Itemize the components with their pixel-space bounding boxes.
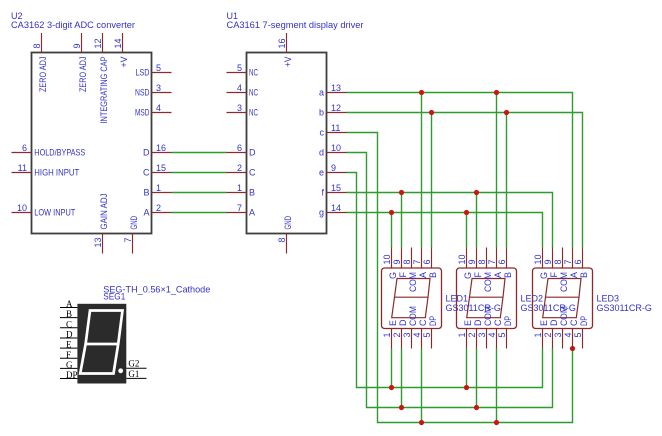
U2 pin 9 ZERO ADJ (top) [81, 33, 83, 53]
junction at 466.5,212.5 [464, 210, 469, 215]
LED2 pin 10 G (top) [466, 248, 468, 269]
svg-text:GND: GND [283, 216, 293, 230]
LED1 pin 4 C (bottom) [421, 329, 423, 349]
svg-text:F: F [549, 272, 559, 278]
junction at 421.5,422.5 [419, 420, 424, 425]
LED2 pin 7 A (top) [496, 248, 498, 269]
wire net e branch to LED2 pin1 [466, 349, 468, 388]
svg-text:9: 9 [467, 259, 477, 264]
U1 pin 6 D (left) [227, 152, 247, 154]
LED2 pin 3 COM (bottom) [486, 329, 488, 349]
svg-text:NSD: NSD [135, 88, 150, 98]
LED3 digit-8 graphic [543, 279, 581, 318]
svg-text:2: 2 [156, 203, 161, 213]
wire net b: U1-12 to LED3 pin6 [347, 113, 583, 248]
svg-text:12: 12 [331, 103, 341, 113]
7-segment display LED2 GS3011CR-G body [457, 268, 517, 329]
wire net g branch to LED1 pin10 [391, 213, 393, 248]
svg-text:13: 13 [93, 238, 103, 248]
svg-text:CA3161 7-segment display drive: CA3161 7-segment display driver [227, 20, 364, 30]
U2 pin 7 GND (bottom) [132, 234, 134, 254]
SEG1 pin E (left) [60, 347, 77, 349]
svg-text:13: 13 [331, 83, 341, 93]
svg-text:D: D [143, 148, 150, 158]
LED3 pin 3 COM (bottom) [562, 329, 564, 349]
svg-text:8: 8 [402, 259, 412, 264]
U1 pin 10 d (right) [327, 152, 347, 154]
LED1 pin 6 B (top) [431, 248, 433, 269]
svg-text:C: C [569, 319, 579, 326]
svg-text:A: A [418, 272, 428, 278]
svg-text:b: b [319, 108, 324, 118]
LED3 pin 5 DP (bottom) [582, 329, 584, 349]
LED2 pin 4 C (bottom) [496, 329, 498, 349]
svg-text:NC: NC [249, 108, 258, 118]
wire net a: U1-13 to LED3 pin7 [347, 93, 573, 248]
svg-text:1: 1 [382, 333, 392, 338]
U1 pin 2 C (left) [227, 172, 247, 174]
junction at 431.5,112.5 [429, 110, 434, 115]
svg-text:+V: +V [283, 57, 293, 68]
svg-text:B: B [579, 272, 589, 278]
U1 pin 3 NC (left) [227, 112, 247, 114]
U1 pin 12 b (right) [327, 112, 347, 114]
wire net e: U1-9 via bottom bus to LED3 pin1 [347, 173, 543, 388]
U1 pin 16 +V (top) [286, 33, 288, 53]
7-segment display LED1 GS3011CR-G body [382, 268, 442, 329]
junction at 401.5,192.5 [399, 190, 404, 195]
svg-text:3: 3 [156, 83, 161, 93]
svg-text:8: 8 [553, 259, 563, 264]
svg-text:3: 3 [477, 333, 487, 338]
wire net b branch to LED2 pin6 [506, 113, 508, 248]
svg-text:DP: DP [428, 316, 438, 326]
wire U2-D to U1-D [172, 152, 227, 154]
wire U2-C to U1-C [172, 172, 227, 174]
svg-text:8: 8 [32, 43, 42, 48]
svg-text:DP: DP [579, 316, 589, 326]
LED1 pin 2 D (bottom) [401, 329, 403, 349]
junction at 476.5,192.5 [474, 190, 479, 195]
junction at 391.5,212.5 [389, 210, 394, 215]
U2 pin 8 ZERO ADJ (top) [41, 33, 43, 53]
U2 pin 5 LSD (right) [152, 72, 172, 74]
svg-text:B: B [428, 272, 438, 278]
SEG1 pin DP (left) [60, 378, 77, 380]
svg-text:10: 10 [382, 254, 392, 264]
IC U2 CA3162 body [32, 53, 152, 234]
svg-text:C: C [493, 319, 503, 326]
svg-text:G: G [539, 272, 549, 279]
svg-text:11: 11 [18, 163, 27, 173]
svg-text:D: D [473, 319, 483, 326]
svg-text:D: D [398, 319, 408, 326]
svg-text:NC: NC [249, 88, 258, 98]
svg-text:DP: DP [503, 316, 513, 326]
svg-text:GS3011CR-G: GS3011CR-G [597, 303, 652, 313]
svg-text:G1: G1 [128, 369, 139, 379]
svg-text:e: e [319, 168, 324, 178]
LED1 pin 7 A (top) [421, 248, 423, 269]
SEG1 decimal point [118, 368, 123, 373]
U1 pin 1 B (left) [227, 192, 247, 194]
svg-text:MSD: MSD [135, 108, 150, 118]
svg-text:16: 16 [277, 38, 287, 48]
wire net d: U1-10 via bottom bus to LED3 pin2 [347, 153, 553, 408]
svg-text:1: 1 [156, 183, 161, 193]
U2 pin 4 MSD (right) [152, 112, 172, 114]
junction at 466.5,387.5 [464, 385, 469, 390]
LED1 pin 3 COM (bottom) [411, 329, 413, 349]
LED3 pin 2 D (bottom) [552, 329, 554, 349]
svg-text:1: 1 [533, 333, 543, 338]
svg-text:3: 3 [402, 333, 412, 338]
junction at 496.5,92.5 [494, 90, 499, 95]
svg-text:2: 2 [392, 333, 402, 338]
U2 pin 14 +V (top) [122, 33, 124, 53]
svg-text:8: 8 [477, 259, 487, 264]
svg-text:6: 6 [22, 143, 27, 153]
SEG1 pin G (left) [60, 367, 77, 369]
svg-text:E: E [463, 320, 473, 326]
svg-text:SEG1: SEG1 [103, 292, 125, 303]
svg-text:a: a [319, 88, 324, 98]
U2 pin 11 HIGH INPUT (left) [12, 172, 32, 174]
svg-text:10: 10 [533, 254, 543, 264]
junction at 476.5,407.5 [474, 405, 479, 410]
svg-text:LSD: LSD [136, 68, 150, 78]
svg-text:COM: COM [559, 306, 569, 326]
svg-text:C: C [66, 319, 72, 329]
U1 pin 15 f (right) [327, 192, 347, 194]
U1 pin 4 NC (left) [227, 92, 247, 94]
svg-text:E: E [539, 320, 549, 326]
svg-text:6: 6 [422, 259, 432, 264]
svg-text:10: 10 [457, 254, 467, 264]
wire net e branch to LED1 pin1 [391, 349, 393, 388]
svg-text:COM: COM [408, 306, 418, 326]
wire net g: U1-14 to LED3 pin10 [347, 213, 543, 248]
junction at 506.5,112.5 [504, 110, 509, 115]
junction at 391.5,387.5 [389, 385, 394, 390]
svg-text:DP: DP [66, 370, 78, 380]
SEG1 pin F (left) [60, 357, 77, 359]
U1 pin 5 NC (left) [227, 72, 247, 74]
U1 pin 8 GND (bottom) [286, 234, 288, 254]
svg-text:14: 14 [113, 38, 123, 48]
svg-text:D: D [549, 319, 559, 326]
SEG1 digit-8 graphic [80, 311, 122, 374]
svg-text:9: 9 [392, 259, 402, 264]
U1 pin 14 g (right) [327, 212, 347, 214]
wire U2-A to U1-A [172, 212, 227, 214]
svg-text:E: E [66, 340, 72, 350]
svg-text:B: B [249, 188, 255, 198]
LED2 pin 1 E (bottom) [466, 329, 468, 349]
SEG1 pin G1 (right) [126, 377, 146, 379]
SEG1 pin A (left) [60, 307, 77, 309]
svg-text:NC: NC [249, 68, 258, 78]
svg-text:15: 15 [156, 163, 166, 173]
svg-text:A: A [493, 272, 503, 278]
svg-text:E: E [388, 320, 398, 326]
svg-text:COM: COM [483, 306, 493, 326]
LED2 pin 6 B (top) [506, 248, 508, 269]
svg-text:5: 5 [156, 63, 161, 73]
svg-text:5: 5 [237, 63, 242, 73]
svg-text:7: 7 [487, 259, 497, 264]
svg-text:GND: GND [129, 216, 139, 230]
SEG1 pin C (left) [60, 327, 77, 329]
svg-text:g: g [319, 208, 324, 218]
svg-text:B: B [143, 188, 149, 198]
svg-text:4: 4 [237, 83, 242, 93]
LED2 pin 8 COM (top) [486, 248, 488, 269]
U1 pin 11 c (right) [327, 132, 347, 134]
svg-text:A: A [66, 299, 73, 309]
svg-text:C: C [418, 319, 428, 326]
U2 pin 3 NSD (right) [152, 92, 172, 94]
svg-text:4: 4 [156, 103, 161, 113]
LED3 pin 9 F (top) [552, 248, 554, 269]
junction at 401.5,407.5 [399, 405, 404, 410]
svg-text:16: 16 [156, 143, 166, 153]
wire U2-B to U1-B [172, 192, 227, 194]
U1 pin 9 e (right) [327, 172, 347, 174]
U2 pin 2 A (right) [152, 212, 172, 214]
svg-text:14: 14 [331, 203, 341, 213]
LED1 pin 5 DP (bottom) [431, 329, 433, 349]
svg-text:2: 2 [237, 163, 242, 173]
LED1 pin 8 COM (top) [411, 248, 413, 269]
svg-text:3: 3 [553, 333, 563, 338]
LED2 pin 9 F (top) [476, 248, 478, 269]
svg-text:7: 7 [237, 203, 242, 213]
svg-text:G: G [388, 272, 398, 279]
wire net a branch to LED2 pin7 [496, 93, 498, 248]
U2 pin 6 HOLD/BYPASS (left) [12, 152, 32, 154]
LED3 pin 6 B (top) [582, 248, 584, 269]
svg-text:9: 9 [543, 259, 553, 264]
LED1 pin 1 E (bottom) [391, 329, 393, 349]
wire net f branch to LED1 pin9 [401, 193, 403, 248]
svg-text:6: 6 [497, 259, 507, 264]
svg-text:A: A [143, 208, 149, 218]
SEG1 pin B (left) [60, 317, 77, 319]
U1 pin 7 A (left) [227, 212, 247, 214]
svg-text:9: 9 [331, 163, 336, 173]
svg-text:2: 2 [543, 333, 553, 338]
svg-text:F: F [398, 272, 408, 278]
svg-text:INTEGRATING CAP: INTEGRATING CAP [99, 57, 109, 124]
junction at 421.5,92.5 [419, 90, 424, 95]
svg-text:1: 1 [237, 183, 242, 193]
svg-text:11: 11 [331, 123, 340, 133]
svg-text:10: 10 [17, 203, 27, 213]
svg-text:C: C [143, 168, 150, 178]
U2 pin 13 GAIN ADJ (bottom) [102, 234, 104, 254]
LED3 pin 8 COM (top) [562, 248, 564, 269]
svg-text:A: A [569, 272, 579, 278]
svg-text:10: 10 [331, 143, 341, 153]
wire net c branch to LED2 pin4 [496, 349, 498, 423]
svg-text:CA3162 3-digit ADC converter: CA3162 3-digit ADC converter [11, 20, 135, 30]
svg-text:G: G [66, 360, 73, 370]
U2 pin 10 LOW INPUT (left) [12, 212, 32, 214]
svg-text:B: B [503, 272, 513, 278]
svg-text:8: 8 [277, 238, 287, 243]
svg-text:1: 1 [457, 333, 467, 338]
svg-text:5: 5 [497, 333, 507, 338]
wire net b branch to LED1 pin6 [431, 113, 433, 248]
svg-text:ZERO ADJ: ZERO ADJ [78, 57, 88, 93]
junction at 572.5,348.5 [570, 346, 575, 351]
svg-text:d: d [319, 148, 324, 158]
svg-text:6: 6 [237, 143, 242, 153]
svg-text:2: 2 [467, 333, 477, 338]
wire net g branch to LED2 pin10 [466, 213, 468, 248]
svg-text:G: G [463, 272, 473, 279]
svg-text:HOLD/BYPASS: HOLD/BYPASS [34, 148, 85, 158]
svg-text:9: 9 [72, 43, 82, 48]
svg-text:7: 7 [563, 259, 573, 264]
SEG1 pin D (left) [60, 337, 77, 339]
IC U1 CA3161 body [247, 53, 327, 234]
SEG1 pin G2 (right) [126, 367, 146, 369]
wire net c: U1-11 via bottom bus to LED3 pin4 [347, 133, 573, 423]
svg-text:COM: COM [559, 272, 569, 292]
wire net f: U1-15 to LED3 pin9 [347, 193, 553, 248]
svg-text:c: c [320, 128, 325, 138]
LED1 pin 9 F (top) [401, 248, 403, 269]
svg-text:3: 3 [237, 103, 242, 113]
LED1 digit-8 graphic [392, 279, 430, 318]
svg-text:4: 4 [412, 333, 422, 338]
U2 pin 15 C (right) [152, 172, 172, 174]
svg-text:15: 15 [331, 183, 341, 193]
svg-text:LOW INPUT: LOW INPUT [34, 208, 75, 218]
svg-text:5: 5 [573, 333, 583, 338]
svg-text:5: 5 [422, 333, 432, 338]
SEG1 display body [77, 304, 126, 384]
wire net c branch to LED1 pin4 [421, 349, 423, 423]
svg-text:4: 4 [487, 333, 497, 338]
U2 pin 1 B (right) [152, 192, 172, 194]
svg-text:F: F [473, 272, 483, 278]
svg-text:A: A [249, 208, 255, 218]
svg-text:COM: COM [483, 272, 493, 292]
svg-text:GAIN ADJ: GAIN ADJ [99, 194, 109, 230]
svg-text:D: D [249, 148, 256, 158]
LED3 pin 1 E (bottom) [542, 329, 544, 349]
LED2 pin 5 DP (bottom) [506, 329, 508, 349]
U2 pin 12 INTEGRATING CAP (top) [102, 33, 104, 53]
svg-text:4: 4 [563, 333, 573, 338]
junction at 496.5,422.5 [494, 420, 499, 425]
svg-text:ZERO ADJ: ZERO ADJ [38, 57, 48, 92]
LED2 digit-8 graphic [467, 279, 505, 318]
svg-text:F: F [66, 350, 71, 360]
svg-text:C: C [249, 168, 256, 178]
svg-text:D: D [66, 329, 73, 339]
wire net d branch to LED1 pin2 [401, 349, 403, 408]
wire net f branch to LED2 pin9 [476, 193, 478, 248]
svg-text:+V: +V [119, 57, 129, 68]
LED3 pin 7 A (top) [572, 248, 574, 269]
wire net a branch to LED1 pin7 [421, 93, 423, 248]
7-segment display LED3 GS3011CR-G body [533, 268, 593, 329]
LED3 pin 10 G (top) [542, 248, 544, 269]
svg-text:G2: G2 [128, 359, 139, 369]
LED2 pin 2 D (bottom) [476, 329, 478, 349]
svg-text:12: 12 [93, 38, 103, 48]
LED3 pin 4 C (bottom) [572, 329, 574, 349]
wire net d branch to LED2 pin2 [476, 349, 478, 408]
LED1 pin 10 G (top) [391, 248, 393, 269]
svg-text:B: B [66, 309, 72, 319]
svg-text:COM: COM [408, 272, 418, 292]
svg-text:6: 6 [573, 259, 583, 264]
svg-text:7: 7 [412, 259, 422, 264]
U2 pin 16 D (right) [152, 152, 172, 154]
svg-text:7: 7 [123, 238, 133, 243]
svg-text:HIGH INPUT: HIGH INPUT [34, 168, 79, 178]
U1 pin 13 a (right) [327, 92, 347, 94]
